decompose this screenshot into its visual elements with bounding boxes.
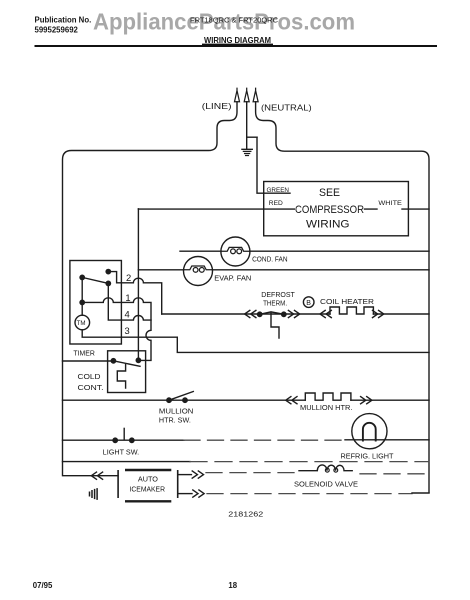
svg-text:COMPRESSOR: COMPRESSOR [295,204,364,216]
wire: green wire down to compressor box + GREEN underline [257,137,290,193]
svg-text:4: 4 [125,308,130,319]
node: main left vertical bus [137,209,139,360]
cold control blade [113,361,140,367]
timer contacts [106,269,110,273]
svg-text:Publication No.: Publication No. [35,16,92,25]
defrost sensing element [271,312,279,338]
svg-text:CONT.: CONT. [78,385,104,392]
cold control bellows [117,365,125,389]
title underline [202,44,273,45]
compressor box [264,182,409,236]
svg-text:GREEN: GREEN [267,187,290,194]
svg-text:MULLION HTR.: MULLION HTR. [300,405,353,412]
svg-text:SEE: SEE [319,187,340,199]
wire: terminal 1 to cold control [82,298,151,361]
svg-text:WHITE: WHITE [378,200,402,207]
timer motor TM [75,315,90,330]
light switch / refrigerator light line [63,414,430,461]
terminal labels [125,272,132,336]
svg-text:REFRIG. LIGHT: REFRIG. LIGHT [341,454,395,461]
prong left [235,88,240,102]
arrows [286,397,297,404]
icemaker upper output to solenoid [178,474,192,476]
svg-text:COLD: COLD [78,374,101,381]
svg-text:COND. FAN: COND. FAN [252,257,288,264]
defrost thermostat + coil heater line [162,292,429,338]
timer switch blade [82,277,108,283]
icemaker lower output [178,493,192,495]
svg-text:FRT18QRC & FRT20QRC: FRT18QRC & FRT20QRC [190,15,279,24]
arrows [245,310,256,317]
prong right [253,88,258,102]
svg-text:TM: TM [77,320,86,327]
defrost contacts [258,312,262,316]
svg-text:EVAP. FAN: EVAP. FAN [214,276,251,283]
svg-text:18: 18 [228,581,237,590]
svg-text:ICEMAKER: ICEMAKER [130,487,166,494]
mullion switch blade [169,392,193,401]
coil heater element [330,307,373,314]
solenoid valve coil [299,465,352,471]
plain rail above icemaker [63,461,191,463]
svg-text:2: 2 [126,272,131,283]
svg-text:(LINE): (LINE) [202,102,232,111]
wire: white wire inside box to right border [365,208,430,210]
power cord / plug [63,88,430,492]
timer box [70,261,122,345]
circled B [303,297,314,308]
svg-text:5995259692: 5995259692 [35,25,79,34]
header rule [35,45,438,47]
wire: timer left column [81,277,83,315]
wire: left border to cold control [63,360,114,362]
wire: terminal 2 to defrost line [108,272,161,314]
svg-text:TIMER: TIMER [73,351,95,358]
svg-text:07/95: 07/95 [33,581,53,590]
svg-text:THERM.: THERM. [263,300,287,307]
wire: middle prong to ground [246,102,248,150]
header [35,9,356,45]
refrigerator light [352,414,387,449]
svg-text:DEFROST: DEFROST [261,292,295,299]
svg-text:AUTO: AUTO [138,476,159,483]
connector bars left [117,471,119,497]
svg-text:WIRING DIAGRAM: WIRING DIAGRAM [204,35,271,45]
wire: line prong to left border, down left side, bottom corner to icemaker row [63,102,238,476]
prong middle [244,88,249,102]
wire: terminal 4 from contact down and right [108,283,151,320]
svg-text:(NEUTRAL): (NEUTRAL) [261,104,312,113]
icemaker feed line with connector arrows [90,465,430,501]
cond fan motor M1 [180,237,429,266]
mullion heater line [63,392,430,425]
svg-text:WIRING: WIRING [306,218,350,230]
ground [242,149,252,155]
svg-text:2181262: 2181262 [228,509,263,518]
svg-text:1: 1 [125,292,130,303]
wire: terminal 3 from TM to lower right rail [82,330,429,353]
svg-text:B: B [306,300,311,307]
mullion heater element [305,393,351,400]
svg-text:MULLION: MULLION [159,408,194,415]
svg-text:RED: RED [269,200,283,207]
wire: neutral prong to right border, down right side [256,102,429,493]
svg-text:HTR. SW.: HTR. SW. [159,418,191,425]
svg-text:COIL HEATER: COIL HEATER [320,299,374,306]
cold control box [108,351,146,393]
svg-text:LIGHT SW.: LIGHT SW. [103,449,140,456]
wire: red wire from left vertical to box [138,208,294,210]
arrows left [91,472,102,479]
wire: junction to green wire vertical [247,136,257,138]
auto icemaker box [126,470,170,501]
evap fan motor M2 [138,257,429,286]
icemaker plug symbol [90,489,98,499]
svg-text:3: 3 [125,325,130,336]
svg-text:SOLENOID VALVE: SOLENOID VALVE [294,481,358,488]
